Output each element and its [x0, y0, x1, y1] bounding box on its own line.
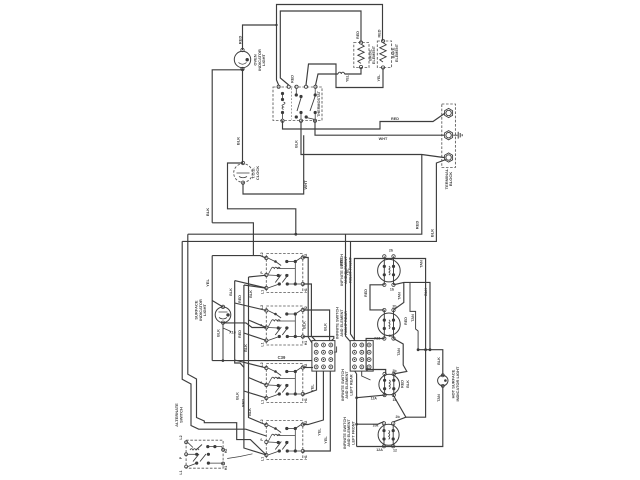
svg-text:BLK: BLK [424, 288, 428, 296]
node oven light bottom junction [241, 68, 244, 71]
surface element right rear wires [383, 310, 385, 338]
surface element left front coil [389, 430, 390, 439]
svg-text:H1: H1 [304, 455, 308, 460]
wire m2 terminal diagonals [235, 303, 267, 311]
svg-text:RED: RED [401, 380, 405, 388]
svg-text:L2: L2 [260, 252, 264, 256]
surface element left rear wires [384, 374, 386, 395]
svg-text:YEL: YEL [377, 74, 381, 82]
wire element top bus right front [354, 259, 425, 350]
alternate switch terminals [185, 441, 188, 444]
svg-text:RED: RED [238, 36, 243, 45]
svg-text:RIGHT FRONT: RIGHT FRONT [349, 256, 353, 283]
terminal block lug L1 [445, 108, 453, 117]
svg-text:RED: RED [391, 117, 399, 121]
infinite switch S4 terminals [265, 423, 268, 426]
bake element E2 box [377, 41, 391, 68]
svg-text:L1: L1 [260, 342, 264, 346]
svg-text:RED: RED [238, 295, 242, 303]
svg-text:BLK: BLK [324, 323, 328, 331]
svg-text:L2: L2 [260, 305, 264, 309]
wire hot light bottom TAN to bottom bus [357, 386, 443, 447]
ground symbol at terminal block [453, 134, 457, 136]
infinite switch S2 terminals [265, 309, 268, 312]
svg-text:BLK: BLK [248, 408, 252, 416]
svg-text:12A: 12A [371, 397, 378, 401]
wire m2 H2 drop [303, 310, 330, 341]
wire E2 top right diagonal [394, 282, 404, 310]
svg-text:YEL: YEL [205, 279, 210, 287]
svg-text:YEL: YEL [324, 436, 328, 444]
svg-text:WHT: WHT [303, 180, 308, 190]
infinite switch S4 internal contacts [268, 425, 275, 429]
wire C39 to m3 H1 [303, 371, 317, 394]
connector C39B body [350, 341, 373, 372]
wire feeder riser RED x243.9 [244, 285, 266, 455]
wire bus2 tap to connector C39B [351, 241, 356, 340]
connector C39 body [312, 341, 335, 372]
wire C39 feed line [212, 360, 312, 362]
infinite switch S4 box [266, 421, 303, 460]
surface element right rear body [378, 313, 401, 336]
svg-text:L1: L1 [179, 470, 183, 474]
infinite switch S2 internal contacts [268, 311, 275, 315]
svg-text:ELEMENT: ELEMENT [395, 43, 399, 62]
wire riser branch to E4 top left [357, 422, 384, 425]
leader arrow alternate switch [227, 454, 252, 459]
infinite switch S3 terminals [265, 366, 268, 369]
infinite switch S3 internal contacts [268, 368, 275, 372]
svg-text:BLK: BLK [217, 329, 221, 337]
surface element left front wires [383, 423, 385, 446]
wire m3 terminal diagonals [235, 360, 267, 368]
infinite switch S1 internal contacts [268, 258, 275, 262]
svg-text:RED: RED [404, 317, 408, 325]
infinite switch S1 box [266, 254, 303, 293]
thermostat internal contacts middle pole [295, 93, 298, 96]
svg-text:LEFT FRONT: LEFT FRONT [352, 421, 356, 445]
svg-text:BLK: BLK [236, 137, 241, 145]
wire BLK riser terminal block to bus2 [182, 160, 446, 242]
thermostat wire risers from top bus [277, 25, 279, 85]
surface element left front terminals [382, 422, 385, 425]
wire RED riser to bus1 [188, 155, 422, 235]
svg-text:12A: 12A [376, 448, 383, 452]
wire feeder riser BLK x248.5 [249, 277, 267, 425]
svg-text:H1: H1 [304, 398, 308, 403]
wire m1 H1 drop to connector C39 [303, 284, 316, 341]
svg-text:RED: RED [291, 75, 295, 83]
TOD clock M1 [234, 164, 253, 183]
infinite switch S3 box [266, 364, 303, 403]
svg-text:BLK: BLK [406, 380, 410, 388]
svg-text:H1: H1 [304, 288, 308, 293]
connector C39 pins [314, 343, 318, 347]
surface element right front body [378, 259, 401, 282]
wire surface light bottom [222, 323, 224, 361]
wire clock bottom to neutral [243, 135, 304, 194]
infinite switch S2 box [266, 306, 303, 345]
svg-text:BLK: BLK [235, 392, 239, 400]
thermostat internal contacts right pole [314, 93, 317, 96]
svg-text:ELEMENT: ELEMENT [372, 45, 376, 64]
svg-text:RED: RED [238, 330, 242, 338]
wire left bus1 drop staircase [188, 234, 266, 455]
wire bake bottom to thermostat [306, 64, 383, 88]
svg-text:L2: L2 [179, 435, 183, 439]
hot surface indicator light DS3 [438, 375, 448, 385]
svg-text:TAN: TAN [411, 314, 415, 322]
surface element left front contacts [382, 429, 385, 432]
wire E1 bottom right to risers [394, 282, 431, 349]
wire C39 to m4 H2 [303, 371, 324, 424]
svg-text:INDICATOR LIGHT: INDICATOR LIGHT [455, 366, 460, 402]
svg-text:BLK: BLK [429, 229, 434, 237]
surface element right front wires [383, 256, 385, 284]
svg-text:C39: C39 [278, 355, 286, 360]
svg-text:L1: L1 [260, 400, 264, 404]
wire YEL riser to surface light [211, 256, 213, 361]
wire second top bus to broil element [280, 11, 361, 43]
wire hot surface light feed [418, 350, 443, 376]
surface element left rear body [379, 374, 400, 395]
thermostat internal divider [291, 88, 293, 120]
wire m2 H1 drop [303, 337, 334, 342]
svg-text:TAN: TAN [398, 292, 402, 300]
wire bus1 tap to connector C39B [346, 234, 351, 341]
surface element right front contacts [383, 265, 386, 268]
surface element right front terminals [383, 255, 386, 258]
broil element resistor [359, 41, 362, 44]
terminal block lug L2 [445, 153, 453, 162]
wire E3 bottom right junction to E4 top right [393, 395, 406, 422]
svg-text:TAN: TAN [397, 348, 401, 356]
surface element right rear contacts [383, 319, 386, 322]
svg-text:L1: L1 [260, 457, 264, 461]
wire right riser staircase to hot light bus [410, 282, 418, 349]
svg-text:RED: RED [356, 31, 360, 39]
svg-text:BLK: BLK [437, 357, 441, 365]
wire m1 H2 drop to connector C39 [303, 258, 312, 343]
wire E3 bottom left to riser [357, 395, 386, 398]
wire E2 bottom left loop to E3 [366, 339, 386, 375]
wire oven indicator light feed [243, 25, 277, 50]
svg-text:BLK: BLK [302, 321, 306, 329]
wire broil bottom with fuse link to thermostat [345, 67, 362, 74]
wire C39 to m4 H1 [303, 371, 331, 451]
wire left bus2 drop staircase [182, 241, 266, 436]
thermostat top terminals [277, 85, 280, 88]
wire m3 H2 to connector C39 [303, 367, 313, 369]
bake element resistor [381, 39, 384, 42]
svg-text:YEL: YEL [317, 428, 321, 436]
svg-text:YEL: YEL [346, 74, 350, 82]
wire RED run thermostat to terminal block L1 [283, 114, 445, 130]
wire feeder riser BLK x234.7 [235, 281, 244, 368]
thermostat box [273, 87, 322, 121]
svg-text:BLK: BLK [229, 288, 233, 296]
surface element right front coil [389, 266, 390, 275]
wire E2 bottom right loop to E3 [393, 339, 407, 375]
infinite switch S1 terminals [265, 256, 268, 259]
svg-text:BLK: BLK [205, 208, 210, 216]
svg-text:TAN: TAN [437, 394, 441, 402]
alternate switch S5 box [186, 440, 223, 468]
oven indicator light DS1 [234, 51, 250, 67]
svg-text:L1: L1 [260, 290, 264, 294]
wire oven light to TOD clock and left branch [242, 69, 244, 163]
alternate switch internals [190, 449, 199, 450]
wire riser x356 grid to bottom bus [355, 371, 357, 446]
surface element left rear terminals [383, 372, 386, 375]
svg-text:RED: RED [364, 289, 368, 297]
surface element left rear contacts [383, 379, 386, 382]
surface element right rear coil [389, 320, 390, 329]
svg-text:RIGHT REAR: RIGHT REAR [344, 311, 348, 335]
wire bus0 from oven light leg [212, 223, 253, 256]
terminal block lug N [445, 131, 453, 140]
node junction at top bus [275, 24, 277, 26]
svg-text:LEFT REAR: LEFT REAR [350, 374, 354, 396]
surface element left rear coil [389, 380, 390, 389]
surface element left front body [378, 424, 399, 445]
thermostat internal contacts left pole [281, 92, 284, 95]
wire WHT neutral run to terminal block [315, 121, 444, 136]
svg-text:SWITCH: SWITCH [179, 407, 184, 423]
thermostat bottom terminals [281, 119, 284, 122]
svg-text:RED: RED [378, 29, 382, 37]
svg-text:TAN: TAN [420, 260, 424, 268]
svg-text:LIGHT: LIGHT [202, 303, 207, 316]
broil element E1 box [354, 43, 369, 68]
wire C39B pin drop to E3 top [366, 368, 368, 369]
connector C39B pins [353, 343, 357, 347]
svg-text:RED: RED [415, 221, 420, 230]
svg-text:H1: H1 [304, 341, 308, 346]
svg-text:WHT: WHT [379, 137, 388, 141]
wire BLK run to terminal block L2 [301, 121, 444, 158]
svg-text:BLK: BLK [244, 344, 248, 352]
svg-text:BLOCK: BLOCK [448, 172, 453, 186]
wire clock top to bus1 riser [228, 163, 296, 234]
svg-text:LIGHT: LIGHT [261, 53, 266, 66]
svg-text:H2: H2 [224, 449, 228, 454]
wire C39 right stub [334, 347, 336, 353]
svg-text:H1: H1 [224, 466, 228, 471]
svg-text:RED: RED [242, 399, 246, 407]
svg-text:YEL: YEL [310, 384, 314, 392]
svg-text:12: 12 [393, 449, 397, 453]
wire E1 bottom left loop [370, 285, 384, 310]
wire C39B col2 drop [362, 371, 371, 380]
terminal block box [442, 104, 456, 168]
surface element right rear terminals [383, 308, 386, 311]
surface indicator light DS2 [215, 307, 231, 323]
wire E4 top right riser [406, 350, 426, 418]
svg-text:THERMOSTAT: THERMOSTAT [317, 90, 321, 116]
svg-text:BLK: BLK [249, 290, 253, 298]
svg-text:CLOCK: CLOCK [255, 166, 260, 180]
svg-text:BLK: BLK [295, 140, 299, 148]
wire top bus L2 to bake element [277, 5, 383, 41]
